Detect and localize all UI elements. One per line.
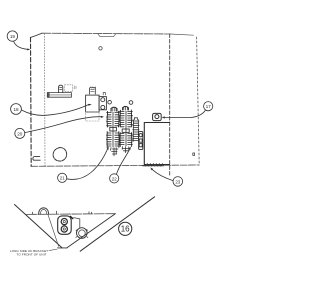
latch knob	[59, 85, 63, 92]
screw S1	[99, 47, 102, 50]
plate screw	[70, 216, 72, 218]
label 21	[58, 173, 67, 182]
svg-text:18: 18	[13, 107, 19, 112]
plate corner tick	[56, 211, 58, 214]
hopper right wall	[67, 214, 116, 248]
svg-text:20: 20	[17, 131, 23, 136]
leader 17	[165, 110, 206, 118]
leader 21	[67, 149, 108, 180]
top corner tab	[103, 93, 105, 95]
panel hole	[53, 148, 67, 162]
arrowhead 21	[107, 146, 109, 149]
ribbed condenser small stack	[133, 120, 139, 142]
panel top-left step	[31, 33, 43, 37]
screw S2	[108, 100, 112, 104]
terminal square upper	[139, 139, 142, 142]
svg-text:21: 21	[60, 176, 65, 181]
terminal square lower	[139, 144, 142, 147]
tick marks right of housing	[74, 86, 76, 89]
bracket plate	[58, 216, 71, 234]
right stack feet	[122, 147, 130, 153]
left stack top cap	[111, 107, 117, 111]
arrowhead 20	[101, 116, 104, 118]
hanging ring	[77, 228, 88, 239]
leader 23	[152, 170, 173, 181]
panel top-right step	[170, 34, 194, 35]
small stack cap	[134, 118, 137, 120]
plate hole upper	[61, 219, 67, 225]
label 20	[15, 128, 25, 138]
latch dashed housing	[65, 85, 73, 92]
latch rod end cap	[47, 93, 71, 98]
note leader	[49, 249, 57, 250]
svg-text:22: 22	[112, 176, 117, 181]
right stack top cap	[123, 106, 129, 110]
switch box U1	[86, 95, 100, 112]
leader 18	[21, 105, 88, 116]
hinge hole upper	[101, 98, 105, 102]
arrowhead 18	[88, 104, 92, 106]
panel outer right edge	[197, 37, 200, 165]
contactor box	[144, 123, 169, 165]
contactor base hatching	[146, 163, 163, 166]
label 22	[110, 174, 119, 183]
D bracket	[33, 156, 40, 160]
panel outer left edge	[30, 37, 33, 166]
svg-text:TO FRONT OF UNIT: TO FRONT OF UNIT	[17, 252, 47, 256]
mark a	[193, 153, 195, 155]
arrowhead 23	[150, 167, 153, 170]
latch rod	[47, 93, 71, 98]
grommet dome	[39, 208, 49, 214]
label 23	[173, 177, 183, 187]
bushing hole	[155, 115, 159, 119]
panel bottom edge	[31, 165, 199, 166]
plate hole lower	[61, 226, 67, 232]
terminal circle	[139, 134, 142, 137]
side terminal strip	[139, 131, 143, 149]
left stack mid band	[110, 127, 117, 131]
svg-text:16: 16	[121, 225, 130, 234]
handle notch	[98, 33, 117, 36]
label 19	[7, 31, 17, 41]
leader 19	[14, 41, 28, 49]
arrowhead 19	[27, 48, 30, 50]
inner strut	[48, 215, 59, 247]
leader 22	[116, 149, 129, 174]
contactor top bushing	[153, 113, 162, 120]
terminal block T1	[89, 87, 95, 94]
right stack mid band	[122, 129, 129, 132]
arrowhead 17	[162, 116, 165, 118]
label 16	[119, 222, 132, 235]
svg-text:23: 23	[175, 179, 180, 184]
switch box dashed extension	[86, 112, 99, 121]
ribbed condenser right stack	[119, 110, 132, 147]
screw S3	[129, 101, 133, 105]
hinge plate	[99, 97, 106, 110]
tick left	[31, 212, 33, 214]
hanger wire	[74, 218, 80, 228]
leader 20	[25, 117, 101, 133]
hopper left wall	[15, 205, 63, 248]
panel top edge	[42, 32, 170, 35]
panel inner left edge	[44, 33, 47, 166]
ribbed condenser left stack	[106, 111, 119, 147]
contactor base line	[143, 165, 164, 167]
svg-text:17: 17	[206, 104, 211, 109]
label 17	[204, 102, 213, 111]
label 18	[11, 104, 22, 115]
hopper top line	[27, 213, 116, 216]
hopper bottom	[58, 247, 68, 249]
svg-text:19: 19	[10, 34, 16, 39]
arrowhead 22	[129, 146, 131, 149]
tick right	[89, 212, 92, 214]
left stack feet	[111, 148, 118, 156]
section line 16	[80, 197, 154, 251]
hinge hole lower	[101, 105, 105, 109]
panel inner right edge	[169, 34, 171, 177]
